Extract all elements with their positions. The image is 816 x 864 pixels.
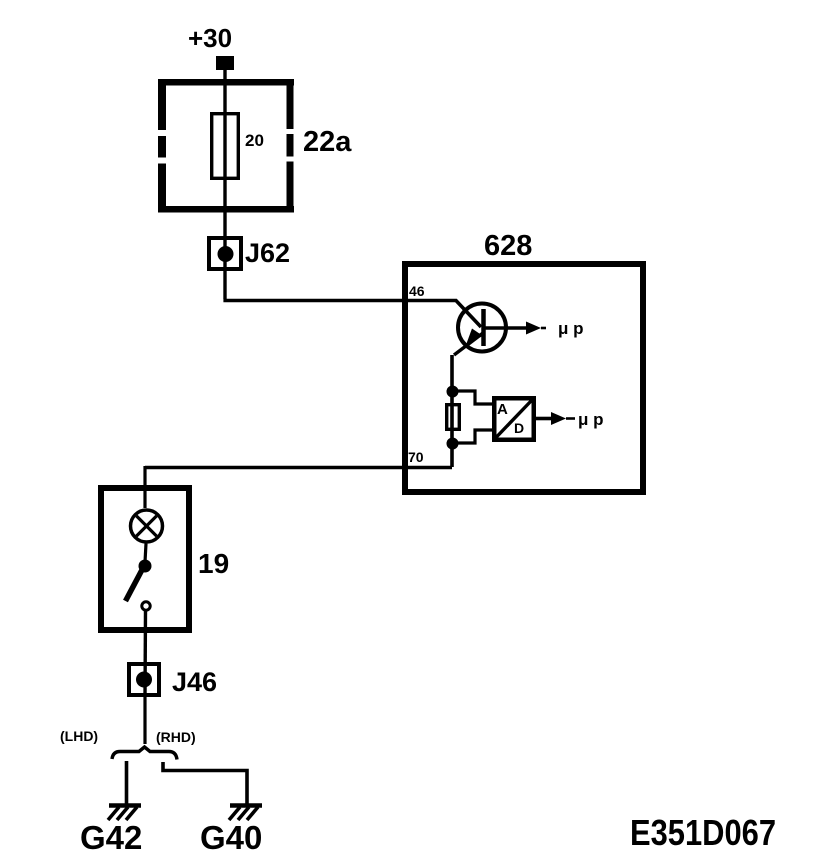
label (LHD): [60, 728, 98, 744]
svg-text:(RHD): (RHD): [156, 729, 196, 745]
label G40: [200, 819, 262, 856]
label J46: [172, 667, 217, 697]
svg-text:G40: G40: [200, 819, 262, 856]
svg-text:J62: J62: [245, 238, 290, 268]
label μp (upper): [558, 319, 584, 338]
svg-text:(LHD): (LHD): [60, 728, 98, 744]
ground G42: [108, 806, 141, 821]
label J62: [245, 238, 290, 268]
svg-text:628: 628: [484, 230, 532, 262]
wire lower junction to A/D input D: [452, 430, 492, 443]
A/D converter U: [494, 398, 534, 440]
svg-text:70: 70: [408, 449, 424, 465]
wire lamp to switch: [145, 544, 146, 563]
wire LHD branch to G42: [125, 761, 129, 805]
fuse value 20: [245, 131, 264, 150]
junction dot lower: [447, 438, 459, 450]
terminal +30: [216, 56, 234, 70]
brace wire split: [112, 747, 177, 760]
fuse F20: [212, 114, 239, 179]
label 22a: [303, 126, 352, 158]
wire J62 to pin 46: [223, 240, 405, 301]
svg-text:A: A: [497, 401, 508, 418]
lamp/switch unit box 19: [101, 488, 189, 630]
svg-text:19: 19: [198, 548, 229, 579]
node +30: [188, 23, 232, 53]
ECU box 628: [405, 264, 643, 492]
wire upper junction to A/D input A: [452, 391, 492, 404]
label G42: [80, 819, 142, 856]
fusebox 22a: [158, 79, 294, 213]
svg-text:46: 46: [409, 283, 425, 299]
wire switch to J46: [143, 610, 147, 697]
lamp: [131, 510, 163, 542]
pin 70: [408, 449, 424, 465]
svg-text:μ p: μ p: [578, 410, 604, 429]
label E351D067: [630, 812, 776, 853]
svg-text:+30: +30: [188, 23, 232, 53]
wire collector to microprocessor arrow: [483, 322, 546, 335]
svg-text:D: D: [514, 420, 524, 436]
label (RHD): [156, 729, 196, 745]
junction J62: [209, 238, 241, 269]
wire RHD branch to G40: [163, 762, 247, 805]
wire from +30 terminal through fuse to J62: [223, 70, 226, 240]
resistor R: [447, 405, 460, 430]
label 628: [484, 230, 532, 262]
wire emitter down to junction: [450, 355, 454, 392]
label μp (lower): [578, 410, 604, 429]
svg-text:20: 20: [245, 131, 264, 150]
wire pin46 to transistor base: [405, 301, 481, 328]
label 19: [198, 548, 229, 579]
svg-text:E351D067: E351D067: [630, 812, 776, 853]
wire junction to resistor and through to pin70 line: [450, 391, 454, 467]
switch S: [126, 560, 152, 611]
svg-text:G42: G42: [80, 819, 142, 856]
wire J46 to split: [143, 697, 146, 744]
junction J46: [129, 664, 159, 695]
wire A/D output to microprocessor arrow: [536, 412, 575, 425]
junction dot upper: [447, 386, 459, 398]
wire pin 70 to lamp unit: [145, 466, 452, 508]
ground G40: [229, 806, 262, 821]
transistor Q (PNP): [454, 304, 506, 356]
svg-text:μ p: μ p: [558, 319, 584, 338]
svg-text:J46: J46: [172, 667, 217, 697]
svg-text:22a: 22a: [303, 126, 352, 158]
pin 46: [409, 283, 425, 299]
